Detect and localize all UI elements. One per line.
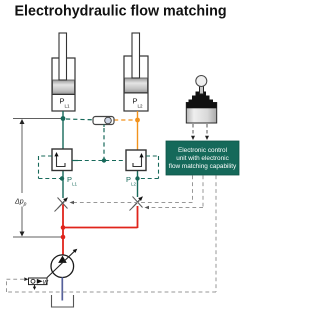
svg-text:Δpp: Δpp: [14, 199, 27, 208]
svg-text:L1: L1: [65, 104, 71, 109]
svg-text:unit with electronic: unit with electronic: [176, 155, 229, 162]
svg-text:L1: L1: [72, 182, 78, 187]
svg-text:W: W: [43, 280, 49, 286]
svg-text:Electronic control: Electronic control: [178, 147, 227, 154]
svg-text:flow matching capability: flow matching capability: [169, 163, 237, 170]
svg-text:L2: L2: [131, 182, 137, 187]
svg-text:L2: L2: [138, 104, 144, 109]
svg-text:Electrohydraulic flow matching: Electrohydraulic flow matching: [15, 3, 227, 19]
